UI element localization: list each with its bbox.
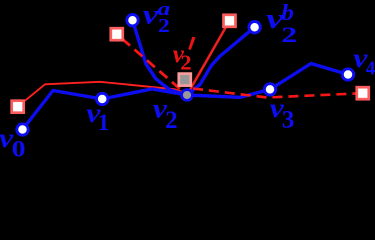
svg-text:3: 3 [282, 107, 295, 134]
node square s4 (right end) [357, 87, 369, 99]
node v2a [127, 15, 138, 26]
prime mark of v2' [188, 37, 195, 50]
node square s3 (near v2b) [224, 15, 236, 27]
svg-text:2: 2 [180, 51, 191, 74]
node v4 [342, 69, 353, 80]
svg-text:1: 1 [98, 110, 110, 135]
label v2a [143, 0, 171, 37]
node v3 [264, 84, 275, 95]
label v0 [0, 124, 26, 162]
node square s2 (near v2a) [111, 28, 123, 40]
svg-text:2: 2 [165, 107, 178, 134]
wire: blue branch v2 to v2b [187, 27, 255, 95]
wire: red dashed from square s2 to v2 [122, 39, 187, 95]
node v0 [17, 124, 28, 135]
wire: blue branch v2 to v2a [133, 20, 188, 95]
label v2' (red) [173, 37, 196, 74]
svg-text:0: 0 [12, 137, 26, 162]
wire: red thin path from square s1 over v1 to v2 [18, 82, 187, 107]
label v3 [270, 94, 295, 133]
svg-text:4: 4 [366, 58, 375, 80]
wire: red dashed from v2' area under v3 to square s4 [193, 89, 363, 98]
node v1 [97, 93, 108, 104]
label v1 [86, 99, 109, 135]
node v2b [249, 22, 260, 33]
wire: red solid from v2 to square s3 [187, 21, 230, 95]
node v2 (gray fill) [182, 90, 193, 101]
wire: blue main path v0-v1-v2-v3-v4 [23, 64, 349, 130]
svg-text:b: b [281, 0, 294, 26]
label v4 [353, 44, 375, 79]
svg-text:2: 2 [158, 15, 170, 37]
node square v2' (gray fill, pink border) [179, 74, 191, 86]
label v2b [266, 0, 297, 47]
svg-text:2: 2 [281, 23, 297, 47]
label v2 [153, 94, 178, 133]
node square s1 (near v0) [12, 101, 24, 113]
